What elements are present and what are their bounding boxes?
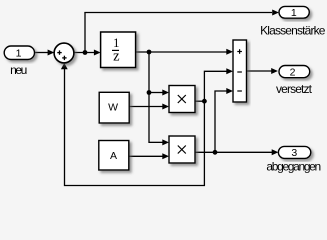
svg-text:2: 2 xyxy=(290,66,296,78)
wire: unit delay output to sum block + input xyxy=(136,49,234,55)
product block P1 xyxy=(169,86,195,113)
wire: top run to outport 1 xyxy=(84,10,279,16)
svg-text:A: A xyxy=(110,150,117,162)
minus sign input 3 xyxy=(237,90,242,92)
outport 3 xyxy=(278,146,310,158)
sum block S2 xyxy=(233,40,247,102)
outport 1 xyxy=(279,6,309,18)
svg-text:1: 1 xyxy=(291,7,297,19)
junction dot D2 xyxy=(147,50,152,55)
junction dot D1 xyxy=(83,50,88,55)
svg-text:3: 3 xyxy=(291,147,297,159)
minus sign input 2 xyxy=(237,71,242,73)
svg-text:1: 1 xyxy=(16,47,22,59)
unit delay block 1/z xyxy=(101,32,136,68)
plus sign input 1 xyxy=(237,49,242,54)
svg-text:versetzt: versetzt xyxy=(276,82,313,96)
wire: gain W to product P1 input 2 xyxy=(129,104,169,110)
wire: vertical drop from D2 xyxy=(148,52,150,143)
svg-text:z: z xyxy=(113,49,120,65)
wire: D4 down, feedback along bottom, up into sum circle bottom xyxy=(61,63,205,186)
wire: gain A to product P2 input 2 xyxy=(129,153,169,159)
product block P2 xyxy=(169,136,195,163)
plus sign west input xyxy=(57,50,61,54)
inport 1 "neu" xyxy=(4,46,34,60)
wire: corner to product P2 input 1 xyxy=(149,139,169,145)
outport 2 xyxy=(279,66,310,78)
wire: D4 up and right into sum block minus input 1 xyxy=(204,68,233,101)
svg-text:W: W xyxy=(108,101,118,113)
gain block W xyxy=(99,92,129,123)
svg-text:abgegangen: abgegangen xyxy=(266,159,321,173)
multiply cross P2 xyxy=(178,146,186,154)
sum circle S1 xyxy=(54,43,74,63)
svg-text:neu: neu xyxy=(10,63,27,77)
gain block A xyxy=(99,141,129,171)
svg-text:1: 1 xyxy=(113,36,119,50)
wire: D3 to product P1 input 1 xyxy=(149,90,169,96)
multiply cross P1 xyxy=(178,95,186,103)
wire: branch up from D1 xyxy=(84,13,86,53)
plus sign south input xyxy=(62,56,66,60)
wire: sum circle to unit delay, with branch xyxy=(73,50,101,56)
junction dot D3 xyxy=(147,90,152,95)
junction dot D5 xyxy=(213,150,218,155)
wire: product P2 output to outport 3 xyxy=(195,149,278,155)
svg-text:Klassenstärke: Klassenstärke xyxy=(260,23,326,37)
junction dot D4 xyxy=(202,99,207,104)
wire: inport neu to sum circle xyxy=(35,50,55,56)
wire: sum block output to outport 2 xyxy=(247,68,278,74)
wire: product P1 output to junction D4 xyxy=(195,100,204,102)
wire: D5 up and right into sum block minus input 2 xyxy=(215,88,233,152)
